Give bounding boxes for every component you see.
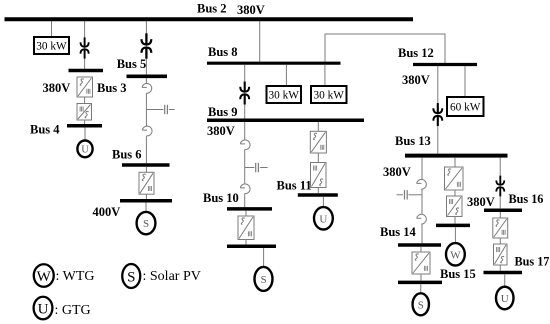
capacitor tap (Bus13 line) [397,190,423,199]
wire Bus9 to conv chain [317,122,319,131]
wire conv to solar bar [245,240,247,245]
svg-text:380V: 380V [383,165,411,179]
wire Bus9 down c [244,193,246,207]
load 60 kW (Bus 12) [447,97,484,116]
svg-text:Bus 5: Bus 5 [117,57,147,71]
breaker hook (Bus5 line top) [142,83,152,93]
transformer T4 (Bus12-Bus13) [433,103,442,126]
bus Bus 4 [67,124,102,128]
wire conv to conv (Bus16-17) [499,238,501,244]
svg-text:Bus 9: Bus 9 [208,105,238,119]
bus Bus 2 [5,17,414,21]
svg-text:: Solar PV: : Solar PV [143,269,201,284]
wire conv to Bus15 [420,274,422,280]
generator W (WTG at Bus13) [446,243,465,265]
wire Bus6 to conv [145,167,147,173]
bus Bus 17 [484,271,523,275]
wire tie Bus8 to Bus12 [325,34,445,63]
wire WTG bar to WTG [454,227,456,243]
bus Bus 11 [298,193,338,197]
bus 400V bar (Bus 7) [120,199,172,203]
wire Bus2 to T1 [84,21,86,69]
bus Bus 8 [207,62,341,65]
wire Bus10 to conv [245,211,247,216]
converter DC/AC (Bus9-Bus11 bottom) [311,163,327,188]
svg-text:Bus 3: Bus 3 [97,81,127,95]
wire Bus13 to T5 [499,158,501,209]
svg-text:Bus 17: Bus 17 [515,255,550,269]
converter AC/DC (Bus14) [412,252,430,274]
wire conv to Bus17 [499,265,501,271]
bus Bus 15 [398,281,442,285]
generator U (GTG at Bus4) [77,141,92,158]
svg-text:S: S [260,274,266,286]
svg-text:U: U [501,293,509,305]
wire Bus13 down a [421,158,423,180]
svg-text:380V: 380V [237,3,265,17]
svg-text:380V: 380V [467,195,495,209]
legend symbol W (WTG) [34,264,54,287]
transformer T3 (Bus8-Bus9) [240,82,249,105]
svg-text:Bus 10: Bus 10 [203,191,239,205]
svg-text:30 kW: 30 kW [36,40,67,52]
wire Bus2 to 30kW load [51,21,53,37]
wire Bus14 to conv [420,247,422,252]
wire Bus13 down c [421,224,423,243]
wire Bus8 to 30kW load 2 [324,65,326,86]
wire Bus15 to Solar PV [420,284,422,293]
wire Bus8 to T3 [244,65,246,119]
generator S (Solar PV at Bus15) [413,293,429,315]
converter DC/AC (Bus4) [77,104,92,121]
wire conv to conv (Bus11) [317,153,319,163]
wire conv to WTG bar [454,217,456,224]
wire Bus13 down b [421,189,423,215]
bus Bus 12 [413,63,477,66]
svg-text:Bus 2: Bus 2 [197,2,227,16]
generator S (Solar PV at Bus10) [255,267,273,291]
wire Bus5 down a [145,78,147,84]
converter AC/DC (Bus3) [77,77,93,97]
converter AC/DC (Bus16 top) [493,218,508,238]
wire solar bar to Solar PV [263,248,265,267]
svg-text:S: S [143,218,149,230]
converter AC/DC (Bus10) [238,216,254,240]
svg-text:: GTG: : GTG [55,303,91,318]
converter AC/DC (Bus9-Bus11 top) [310,131,326,153]
svg-text:S: S [127,269,135,285]
generator S (Solar PV at 400V bar) [137,212,156,234]
svg-text:Bus 13: Bus 13 [395,134,431,148]
wire conv to Bus4 [84,120,86,124]
bus Bus 10 [227,207,272,211]
wire 400V bar to Solar PV [145,203,147,213]
breaker hook (Bus9 line bottom) [240,184,250,194]
bus Bus 3 [69,69,104,73]
svg-text:30 kW: 30 kW [269,89,300,101]
svg-text:30 kW: 30 kW [314,89,345,101]
converter AC/DC (Bus13 WTG top) [445,167,464,190]
transformer T1 (Bus2-Bus3) [81,37,89,58]
wire conv to conv (WTG chain) [454,190,456,196]
wire Bus4 to GTG [84,128,86,142]
svg-text:Bus 14: Bus 14 [380,225,417,239]
bus WTG bar (below Bus 13) [436,224,470,228]
bus Bus 9 [207,119,364,123]
svg-text:380V: 380V [43,81,71,95]
wire Bus16 to conv [499,212,501,218]
breaker hook (Bus5 line bottom) [142,126,152,136]
svg-text:380V: 380V [402,73,430,87]
capacitor tap (Bus5 line) [146,105,174,114]
svg-text:400V: 400V [93,205,121,219]
breaker hook (Bus13 line bottom) [417,214,427,224]
wire Bus12 to 60kW load [464,66,466,97]
bus Bus 14 [398,243,441,247]
wire conv to Bus11 [317,188,319,194]
wire Bus13 to conv chain [454,158,456,167]
bus Bus 13 [405,154,508,158]
legend symbol S (Solar PV) [122,264,140,288]
bus Bus 5 [127,74,168,78]
svg-text:Bus 11: Bus 11 [277,179,312,193]
bus Bus 6 [122,163,170,167]
bus Bus 16 [484,208,522,212]
svg-text:: WTG: : WTG [56,269,95,284]
svg-text:W: W [37,269,52,285]
wire Bus9 down b [244,149,246,184]
generator U (GTG at Bus11) [314,207,333,229]
svg-text:U: U [38,301,49,317]
legend symbol U (GTG) [34,297,53,320]
svg-text:Bus 8: Bus 8 [208,45,238,59]
svg-text:W: W [450,249,461,261]
converter DC/AC (Bus16-17 bottom) [494,244,508,265]
svg-text:Bus 12: Bus 12 [398,46,434,60]
svg-text:380V: 380V [207,124,235,138]
converter DC/AC (Bus13 WTG bottom) [447,196,463,217]
svg-text:60 kW: 60 kW [450,101,481,113]
capacitor tap (Bus9 line) [245,163,268,172]
transformer T5 (Bus13-Bus16) [496,176,504,197]
bus solar bar (below Bus 10) [227,245,276,249]
wire conv to conv (Bus3-4) [84,97,86,104]
load 30 kW right (Bus 8) [311,86,347,103]
converter AC/DC (Bus6) [139,172,154,194]
breaker hook (Bus9 line top) [240,140,250,150]
svg-text:Bus 15: Bus 15 [440,267,476,281]
svg-text:Bus 6: Bus 6 [112,148,142,162]
wire Bus17 to GTG [504,274,506,287]
wire Bus12 to T4 [437,66,439,154]
svg-text:U: U [319,213,327,225]
transformer T2 (Bus2-Bus5) [142,33,152,58]
wire Bus2 to T2 [145,21,147,74]
wire conv to 400V bar [145,194,147,199]
svg-text:U: U [81,145,89,156]
wire Bus8 to 30kW load 1 [285,65,287,86]
wire Bus5 down c [145,136,147,164]
svg-text:S: S [418,299,424,311]
wire Bus11 to GTG [322,197,324,208]
load 30 kW left (Bus 8) [267,86,302,103]
breaker hook (Bus13 line top) [417,179,427,189]
svg-text:Bus 4: Bus 4 [30,123,60,137]
wire Bus2 to Bus8 [259,21,261,62]
svg-text:Bus 16: Bus 16 [509,192,544,206]
load 30 kW (Bus 2) [34,37,69,54]
wire Bus5 down b [145,93,147,127]
generator U (GTG at Bus17) [496,287,514,310]
wire Bus9 down a [244,122,246,140]
